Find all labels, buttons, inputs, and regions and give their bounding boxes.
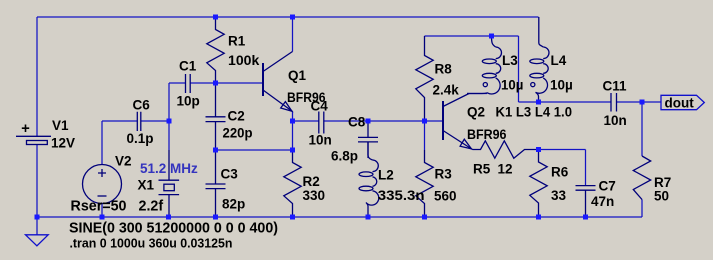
- svg-text:47n: 47n: [591, 194, 614, 209]
- svg-text:R2: R2: [303, 174, 320, 189]
- svg-text:SINE(0 300 51200000 0 0 0 400): SINE(0 300 51200000 0 0 0 400): [69, 221, 278, 237]
- svg-text:K1 L3 L4 1.0: K1 L3 L4 1.0: [496, 105, 573, 120]
- svg-text:12V: 12V: [51, 136, 75, 151]
- svg-text:C4: C4: [311, 99, 329, 114]
- svg-text:C6: C6: [133, 98, 151, 113]
- svg-text:2.4k: 2.4k: [433, 83, 460, 98]
- svg-text:33: 33: [551, 188, 567, 203]
- svg-text:330: 330: [303, 188, 326, 203]
- svg-text:C3: C3: [221, 167, 239, 182]
- svg-text:C7: C7: [599, 179, 616, 194]
- svg-text:L2: L2: [378, 168, 394, 183]
- svg-text:C2: C2: [228, 109, 245, 124]
- svg-text:10µ: 10µ: [501, 78, 523, 93]
- svg-text:C1: C1: [179, 59, 197, 74]
- svg-text:R1: R1: [228, 34, 246, 49]
- svg-text:10p: 10p: [177, 94, 200, 109]
- svg-text:dout: dout: [665, 96, 695, 111]
- svg-text:V2: V2: [115, 154, 132, 169]
- svg-text:10n: 10n: [604, 113, 627, 128]
- svg-text:L3: L3: [502, 53, 518, 68]
- svg-text:Rser=50: Rser=50: [71, 199, 127, 215]
- svg-text:V1: V1: [52, 118, 69, 133]
- svg-text:50: 50: [654, 189, 669, 204]
- svg-text:100k: 100k: [228, 53, 260, 68]
- svg-text:12: 12: [498, 162, 513, 177]
- svg-text:R5: R5: [473, 162, 491, 177]
- svg-text:C8: C8: [348, 115, 366, 130]
- svg-text:Q1: Q1: [288, 68, 307, 83]
- svg-text:R3: R3: [435, 167, 453, 182]
- svg-text:220p: 220p: [223, 126, 253, 141]
- svg-text:X1: X1: [138, 178, 155, 193]
- svg-text:560: 560: [434, 189, 457, 204]
- svg-text:C11: C11: [603, 79, 628, 94]
- svg-text:L4: L4: [551, 53, 567, 68]
- svg-text:51.2 MHz: 51.2 MHz: [140, 161, 198, 176]
- svg-text:.tran 0 1000u 360u 0.03125n: .tran 0 1000u 360u 0.03125n: [70, 236, 233, 251]
- svg-text:10µ: 10µ: [550, 78, 573, 93]
- svg-text:Q2: Q2: [467, 105, 485, 120]
- svg-text:10n: 10n: [309, 133, 332, 148]
- svg-text:6.8p: 6.8p: [331, 149, 358, 164]
- svg-text:0.1p: 0.1p: [127, 131, 154, 146]
- svg-text:82p: 82p: [222, 197, 245, 212]
- svg-text:R8: R8: [435, 62, 453, 77]
- svg-text:BFR96: BFR96: [467, 127, 507, 142]
- svg-text:R6: R6: [551, 165, 569, 180]
- svg-text:2.2f: 2.2f: [139, 199, 164, 215]
- svg-text:335.3n: 335.3n: [378, 188, 425, 203]
